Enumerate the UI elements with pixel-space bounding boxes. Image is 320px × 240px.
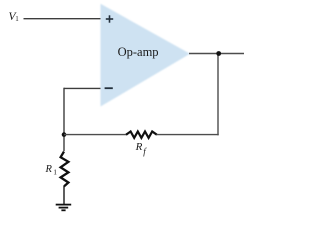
- wire feedback left: [64, 134, 127, 136]
- wire left vertical: [63, 88, 65, 151]
- node output junction: [216, 51, 221, 56]
- svg-text:Op-amp: Op-amp: [118, 45, 159, 59]
- wire V1 to + input: [24, 18, 101, 20]
- resistor R1: [61, 152, 69, 187]
- pin - (inverting input): [105, 87, 113, 89]
- wire feedback right: [156, 134, 218, 136]
- wire inverting input horizontal: [64, 87, 101, 89]
- wire right vertical: [217, 54, 219, 136]
- wire R1 to ground: [63, 186, 65, 204]
- svg-text:1: 1: [15, 15, 19, 23]
- ground: [56, 205, 71, 211]
- pin + (noninverting input): [106, 15, 113, 22]
- svg-text:f: f: [143, 147, 147, 157]
- wire output: [189, 53, 244, 55]
- svg-text:1: 1: [53, 168, 57, 177]
- svg-text:R: R: [45, 164, 53, 175]
- node junction left (feedback tap): [62, 132, 67, 137]
- svg-text:R: R: [135, 141, 143, 153]
- resistor Rf: [126, 132, 157, 138]
